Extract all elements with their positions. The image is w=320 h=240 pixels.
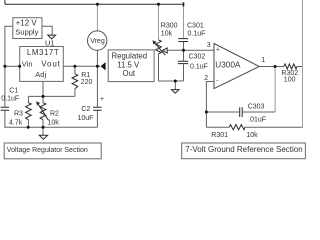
- svg-text:10k: 10k: [246, 132, 258, 139]
- svg-text:C2: C2: [81, 106, 90, 113]
- svg-text:C1: C1: [9, 87, 18, 94]
- svg-text:0.1uF: 0.1uF: [190, 63, 208, 70]
- svg-text:R3: R3: [14, 110, 23, 117]
- svg-text:+: +: [100, 96, 104, 103]
- svg-text:10uF: 10uF: [78, 115, 94, 122]
- svg-text:Adj: Adj: [35, 70, 46, 79]
- svg-text:R300: R300: [161, 22, 178, 29]
- svg-text:LM317T: LM317T: [27, 48, 59, 57]
- svg-text:C303: C303: [248, 103, 265, 110]
- svg-text:C301: C301: [187, 23, 204, 30]
- svg-text:220: 220: [81, 79, 93, 86]
- svg-text:R1: R1: [81, 72, 90, 79]
- svg-text:R301: R301: [211, 132, 228, 139]
- svg-text:Vreg: Vreg: [90, 38, 105, 45]
- svg-text:Regulated: Regulated: [112, 52, 148, 61]
- svg-text:2: 2: [204, 75, 208, 82]
- svg-text:R2: R2: [50, 110, 59, 117]
- svg-text:10k: 10k: [161, 30, 173, 37]
- svg-text:U1: U1: [45, 39, 55, 48]
- svg-text:10k: 10k: [48, 120, 60, 127]
- svg-text:4.7k: 4.7k: [9, 119, 23, 126]
- svg-text:0.1uF: 0.1uF: [188, 30, 206, 37]
- svg-text:Vout: Vout: [41, 60, 61, 69]
- svg-text:7-Volt Ground Reference Sectio: 7-Volt Ground Reference Section: [185, 145, 302, 154]
- svg-text:100: 100: [284, 76, 296, 83]
- svg-text:Out: Out: [123, 69, 136, 78]
- svg-text:Voltage Regulator Section: Voltage Regulator Section: [7, 147, 88, 154]
- svg-text:+: +: [216, 46, 220, 53]
- svg-text:0.1uF: 0.1uF: [1, 95, 19, 102]
- svg-text:.01uF: .01uF: [248, 117, 266, 124]
- svg-text:1: 1: [261, 57, 265, 64]
- svg-text:3: 3: [207, 42, 211, 49]
- svg-text:+12 V: +12 V: [16, 18, 38, 27]
- svg-text:Supply: Supply: [15, 28, 38, 37]
- svg-text:U300A: U300A: [215, 61, 241, 70]
- svg-text:Vin: Vin: [22, 60, 33, 69]
- svg-text:C302: C302: [189, 53, 206, 60]
